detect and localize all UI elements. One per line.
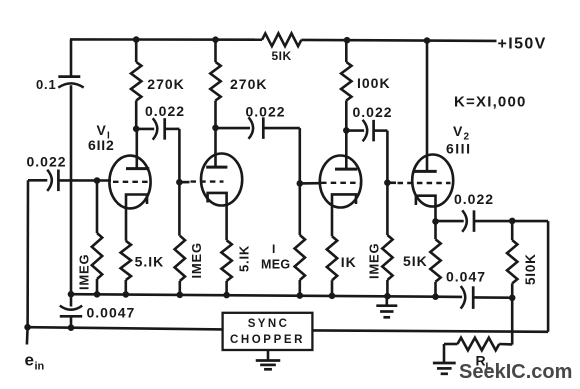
resistor 51K (V2b cathode) (434, 221, 437, 239)
ground symbol (sync chopper) (267, 350, 270, 361)
junction on ground bus (223, 292, 230, 299)
svg-text:in: in (35, 361, 45, 373)
tube V1b grid (dashed) (179, 181, 189, 184)
svg-text:SYNC: SYNC (248, 318, 290, 330)
svg-text:0.022: 0.022 (145, 103, 185, 119)
node rail-100K (344, 37, 351, 44)
node V2a plate / 100K (343, 127, 350, 134)
tube V1a cathode (126, 195, 147, 241)
resistor 1MEG (V2a grid leak) (298, 183, 301, 235)
wire ground bus (71, 294, 436, 297)
capacitor 0.022 (coupling V1a->V1b) (136, 128, 154, 131)
svg-text:5IK: 5IK (403, 253, 428, 269)
svg-text:5.IK: 5.IK (135, 254, 165, 270)
svg-text:0.022: 0.022 (353, 104, 393, 120)
tube V2b plate (fed from rail) (426, 41, 429, 171)
tube V1b (half of 6112) envelope (201, 154, 242, 206)
svg-text:I00K: I00K (357, 75, 391, 91)
tube V1b plate (214, 128, 217, 167)
junction on ground bus (432, 293, 439, 300)
wire lower bus (to sync chopper) (28, 327, 223, 329)
capacitor 0.022 (coupling V1b->V2a) (216, 127, 251, 130)
node V1b grid (176, 179, 183, 186)
svg-text:6III: 6III (446, 141, 471, 157)
svg-text:5IK: 5IK (272, 49, 292, 63)
svg-text:CHOPPER: CHOPPER (230, 334, 305, 346)
svg-text:V: V (453, 123, 463, 139)
svg-text:+I50V: +I50V (498, 36, 547, 53)
node V2b cathode (432, 218, 439, 225)
ground symbol (bus) (385, 296, 388, 306)
resistor 1K (V2a cathode) (327, 236, 337, 280)
svg-text:270K: 270K (230, 76, 267, 92)
svg-text:270K: 270K (147, 76, 184, 92)
capacitor 0.047 (436, 295, 463, 298)
tube V1a (half of 6112) envelope (109, 156, 150, 209)
tube V2a cathode (332, 194, 356, 236)
svg-text:0.022: 0.022 (454, 191, 494, 207)
resistor 5.1K (V1b cathode) (221, 240, 231, 281)
svg-text:IMEG: IMEG (77, 254, 92, 290)
node rail-270K#2 (212, 36, 219, 43)
svg-text:IMEG: IMEG (189, 242, 204, 278)
node 510K bottom (509, 295, 516, 302)
node V2b grid (384, 179, 391, 186)
node V1a plate / 270K (133, 126, 140, 133)
resistor 270K (V1b plate) (214, 40, 217, 62)
tube V2a (half of 6111) envelope (320, 156, 361, 208)
resistor 51K (plate supply) (262, 33, 301, 46)
junction on ground bus (94, 291, 101, 298)
svg-text:SeekIC.com: SeekIC.com (459, 361, 572, 383)
junction on ground bus (329, 293, 336, 300)
wire input drop to e_in (26, 180, 29, 327)
wire +150V supply rail (70, 38, 262, 41)
junction on ground bus (297, 292, 304, 299)
node e_in junction (24, 324, 31, 331)
svg-text:MEG: MEG (261, 258, 290, 272)
svg-text:K=XI,000: K=XI,000 (454, 94, 527, 111)
tube V2b (half of 6111) envelope (412, 155, 453, 207)
resistor 100K (V2a plate) (345, 40, 348, 62)
wire 510K to RL (511, 298, 514, 345)
svg-text:0.1: 0.1 (36, 77, 56, 92)
resistor 5.1K (V1a cathode) (121, 241, 131, 280)
wire e_in stub (26, 327, 29, 344)
node V1b plate / 270K (212, 125, 219, 132)
capacitor 0.022 (output) (436, 220, 464, 223)
node 0.0047 on lower bus (68, 324, 75, 331)
capacitor 0.022 (input from e_in) (28, 179, 47, 182)
tube V1a grid (dashed) (113, 181, 151, 183)
tube V2a grid (dashed) (300, 182, 320, 185)
ground symbol (RL) (443, 362, 446, 364)
svg-text:V: V (97, 122, 107, 138)
wire output right drop (547, 221, 550, 332)
svg-text:I: I (272, 242, 275, 256)
svg-text:IMEG: IMEG (367, 243, 382, 279)
capacitor 0.1 (70, 39, 73, 76)
tube V2a plate (345, 130, 348, 168)
resistor 1MEG (V1b grid leak) (178, 182, 181, 236)
svg-text:0.022: 0.022 (27, 154, 67, 170)
junction on ground bus (68, 291, 75, 298)
junction on ground bus (384, 293, 391, 300)
block SYNC CHOPPER (223, 313, 313, 350)
resistor 1MEG (V1a grid leak) (96, 181, 99, 234)
svg-text:0.047: 0.047 (446, 269, 486, 285)
svg-text:0.022: 0.022 (246, 104, 286, 120)
junction on ground bus (123, 291, 130, 298)
capacitor 0.022 (coupling V2a->V2b) (346, 129, 364, 132)
resistor 270K (V1a plate) (135, 40, 138, 62)
tube V1b cathode (208, 193, 227, 240)
node V2a grid (297, 180, 304, 187)
capacitor 0.0047 (60, 306, 82, 310)
resistor RL (458, 338, 500, 351)
tube V2b cathode (416, 196, 436, 222)
node 510K top (509, 218, 516, 225)
junction on ground bus (177, 292, 184, 299)
svg-text:5.IK: 5.IK (237, 245, 252, 272)
svg-text:e: e (25, 351, 34, 370)
svg-text:6II2: 6II2 (88, 137, 115, 153)
tube V2b grid (dashed) (387, 181, 396, 184)
tube V1a plate (136, 129, 139, 168)
resistor 1MEG (V2b grid leak) (386, 183, 389, 235)
svg-text:5I0K: 5I0K (523, 253, 538, 285)
resistor 510K (511, 221, 514, 240)
svg-text:IK: IK (341, 254, 357, 270)
node rail-270K#1 (133, 36, 140, 43)
node rail-V2 plate (424, 37, 431, 44)
node V1a grid (94, 177, 101, 184)
svg-text:0.0047: 0.0047 (87, 305, 136, 321)
